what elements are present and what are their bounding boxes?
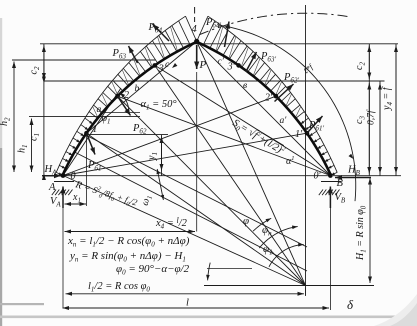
svg-text:c′: c′ bbox=[218, 57, 225, 67]
svg-text:δ: δ bbox=[347, 297, 354, 312]
dash-dot continuation arc bbox=[199, 13, 350, 35]
angle arc phi_1 bbox=[269, 245, 304, 267]
wire ray 1 to centre bbox=[86, 133, 305, 285]
apex level line bbox=[40, 43, 398, 45]
reaction VA bbox=[62, 187, 64, 209]
wire chord apex-1 bbox=[87, 41, 197, 133]
dim c1 left bbox=[43, 81, 45, 175]
wire chord apex-B bbox=[197, 41, 331, 175]
angle arc phi_n bbox=[259, 227, 297, 249]
omega1 double arrow bbox=[157, 169, 160, 184]
wire ray 3 to centre bbox=[155, 65, 306, 285]
force Pb1p right bbox=[307, 116, 323, 133]
svg-text:x4 = l/2: x4 = l/2 bbox=[155, 216, 188, 231]
node 2&#8242; bbox=[274, 94, 279, 99]
node 2 bbox=[115, 94, 120, 99]
force Pb3p right bbox=[246, 52, 257, 72]
support B pin bbox=[328, 173, 333, 178]
reaction HA bbox=[42, 175, 61, 177]
distributed wind load band right half bbox=[208, 16, 337, 172]
svg-text:2′: 2′ bbox=[265, 93, 273, 104]
centre horizontal line bbox=[204, 285, 374, 287]
force Pb2p right bbox=[275, 84, 294, 102]
angle arc phi bbox=[253, 218, 271, 231]
dim c3 right bbox=[368, 83, 370, 174]
axis dash above apex bbox=[194, 7, 196, 14]
svg-text:l1/2 = R cos φ0: l1/2 = R cos φ0 bbox=[88, 281, 150, 294]
wire L1 parallel bbox=[87, 136, 308, 248]
support A pin bbox=[61, 173, 66, 178]
svg-text:B: B bbox=[337, 178, 344, 189]
bottom-right corner shadow bbox=[374, 294, 417, 326]
springing line A-B bbox=[45, 175, 332, 177]
wire ray A to centre bbox=[63, 176, 306, 286]
svg-text:xn = l1/2 − R cos(φ0 + nΔφ): xn = l1/2 − R cos(φ0 + nΔφ) bbox=[67, 235, 190, 249]
left page-edge line bbox=[0, 18, 2, 148]
svg-text:1′: 1′ bbox=[295, 129, 303, 140]
bottom page-edge line bbox=[0, 316, 417, 319]
svg-text:φ: φ bbox=[243, 215, 249, 227]
reaction VB bbox=[329, 187, 331, 209]
node 4 apex dot bbox=[194, 39, 199, 44]
wire B to point 3 bbox=[155, 65, 331, 175]
wire A to point 1p bbox=[63, 133, 307, 175]
springing line right ext bbox=[333, 175, 401, 177]
wire ray 2 to centre bbox=[118, 96, 306, 285]
svg-text:yn = R sin(φ0 + nΔφ) − H1: yn = R sin(φ0 + nΔφ) − H1 bbox=[69, 250, 186, 264]
dim 0.7f bbox=[379, 83, 381, 174]
distributed wind load band left half bbox=[56, 16, 185, 172]
dim y4=f bbox=[395, 46, 397, 174]
outer thin arc right bbox=[218, 25, 356, 201]
level line y116 bbox=[29, 116, 140, 118]
dim l bbox=[63, 307, 330, 309]
svg-text:0: 0 bbox=[71, 171, 76, 182]
svg-text:3′: 3′ bbox=[227, 61, 236, 72]
node 1&#8242; bbox=[305, 131, 310, 136]
svg-text:b: b bbox=[135, 84, 140, 94]
dim c2 right bbox=[368, 46, 370, 80]
dim x1 bbox=[65, 203, 87, 205]
svg-text:a′: a′ bbox=[280, 116, 288, 126]
node 3 bbox=[153, 63, 158, 68]
svg-text:P: P bbox=[199, 59, 207, 71]
force P at apex bbox=[196, 45, 198, 69]
dim x4 bbox=[65, 231, 196, 233]
support B vertical ext bbox=[329, 208, 331, 310]
apex axis below P bbox=[196, 72, 198, 232]
svg-text:φ0 = 90°−α−φ/2: φ0 = 90°−α−φ/2 bbox=[116, 263, 190, 277]
reaction HB bbox=[335, 177, 371, 179]
force Pb4 left bbox=[153, 24, 170, 41]
wire L2 parallel bbox=[75, 152, 308, 271]
wire chord 0-1 extended bbox=[63, 88, 121, 176]
angle arc phi0 small bbox=[208, 263, 211, 281]
force Pb1 left bbox=[87, 133, 96, 154]
svg-text:A: A bbox=[48, 182, 56, 193]
node 1 bbox=[84, 131, 89, 136]
force Pb2 left bbox=[118, 96, 131, 115]
dim h1 bbox=[31, 119, 33, 173]
level line y81 bbox=[44, 80, 385, 82]
level line y60 bbox=[12, 59, 156, 61]
svg-text:0,7f: 0,7f bbox=[366, 109, 377, 125]
force Pb4p right bbox=[225, 22, 230, 48]
dim y1 bbox=[161, 137, 163, 171]
svg-text:3: 3 bbox=[158, 63, 164, 74]
wire apex to centre bbox=[197, 41, 306, 285]
wire B to point 2 bbox=[118, 96, 331, 175]
dim h2 bbox=[13, 62, 15, 173]
arch axis left half bbox=[63, 42, 197, 175]
svg-text:2: 2 bbox=[124, 90, 129, 101]
node 3&#8242; bbox=[236, 63, 241, 68]
svg-text:4: 4 bbox=[192, 24, 198, 35]
svg-text:l: l bbox=[186, 298, 189, 309]
dim H1 bbox=[369, 178, 371, 283]
svg-text:y4 = f: y4 = f bbox=[382, 86, 395, 111]
point-1 level line bbox=[87, 134, 169, 136]
force Pb3 left bbox=[129, 46, 138, 63]
wire vertical radius bbox=[305, 5, 307, 296]
svg-text:1: 1 bbox=[92, 124, 97, 135]
svg-text:в: в bbox=[243, 81, 247, 91]
wire A to point 2p bbox=[63, 96, 276, 175]
svg-text:0′: 0′ bbox=[314, 171, 322, 182]
angle alpha1 mark bbox=[100, 112, 140, 114]
dim l1/2 bbox=[66, 293, 305, 295]
dim c2 left bbox=[43, 46, 45, 80]
arch axis right half bbox=[197, 42, 331, 175]
support A vertical ext bbox=[62, 208, 64, 308]
